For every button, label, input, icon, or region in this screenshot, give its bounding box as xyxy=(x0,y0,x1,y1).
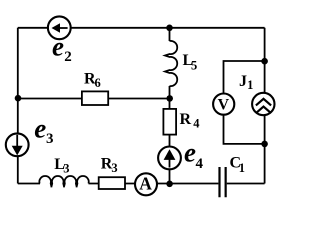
source e3 xyxy=(6,133,29,156)
wire bottom right segment (capacitor to right corner) xyxy=(227,183,265,185)
svg-text:A: A xyxy=(139,173,152,193)
current source J1 xyxy=(252,93,274,115)
source e2 xyxy=(48,16,71,39)
wire bottom left segment xyxy=(18,183,219,185)
junction node left (R6 tap) xyxy=(15,95,22,102)
svg-text:1: 1 xyxy=(239,161,245,175)
svg-text:4: 4 xyxy=(193,116,200,130)
voltmeter V xyxy=(213,94,234,115)
resistor R4 xyxy=(163,109,176,135)
label L3 xyxy=(54,156,69,176)
label e2 xyxy=(52,32,72,66)
svg-text:J: J xyxy=(239,73,247,90)
junction node bottom (A/e4/C1) xyxy=(166,181,173,188)
svg-text:e: e xyxy=(52,32,64,62)
junction node top (L5 tap) xyxy=(166,25,173,32)
svg-text:4: 4 xyxy=(196,156,204,172)
label R3 xyxy=(101,156,118,176)
wire top (node from e2 across to right edge) xyxy=(18,27,265,29)
svg-text:2: 2 xyxy=(64,49,72,65)
label C1 xyxy=(230,155,246,175)
wire R6 branch (middle horizontal) xyxy=(18,98,170,100)
svg-text:e: e xyxy=(184,138,196,168)
inductor L3 xyxy=(39,176,88,187)
label e4 xyxy=(184,138,204,172)
inductor L5 xyxy=(165,41,177,86)
capacitor C1 xyxy=(220,167,226,197)
resistor R3 xyxy=(99,177,125,189)
svg-text:3: 3 xyxy=(46,131,54,147)
junction node mid (L5/R6/R4) xyxy=(166,95,173,102)
junction node right bottom (V branch) xyxy=(261,141,268,148)
svg-text:1: 1 xyxy=(247,78,253,92)
label R6 xyxy=(84,70,101,90)
label J1 xyxy=(239,73,253,92)
svg-text:3: 3 xyxy=(63,162,69,176)
svg-text:e: e xyxy=(34,114,46,144)
svg-text:3: 3 xyxy=(111,161,117,175)
junction node right top (V branch) xyxy=(261,58,268,65)
label L5 xyxy=(183,52,198,72)
svg-text:6: 6 xyxy=(95,76,101,90)
label e3 xyxy=(34,114,53,147)
ammeter A xyxy=(135,173,157,195)
resistor R6 xyxy=(82,91,108,105)
wire L5/R4/e4 branch vertical xyxy=(169,28,171,184)
wire left side xyxy=(17,28,19,184)
svg-text:5: 5 xyxy=(191,58,197,72)
label R4 xyxy=(180,111,201,130)
svg-text:R: R xyxy=(180,111,192,128)
wire right side xyxy=(264,28,266,184)
source e4 xyxy=(158,147,181,170)
wire V branch xyxy=(224,61,265,144)
svg-text:V: V xyxy=(218,96,230,113)
